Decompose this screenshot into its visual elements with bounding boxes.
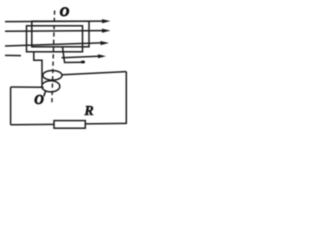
right lead end blob (81, 61, 85, 64)
field line B4 left segment (5, 54, 21, 56)
arrowhead B3 (101, 41, 110, 45)
wire: left vertical (10, 87, 12, 125)
field line B2 (5, 30, 103, 33)
wire: upper ring to right (63, 72, 127, 75)
svg-text:O: O (34, 92, 44, 107)
wire: bottom left (11, 123, 54, 125)
coil turn front rectangle (27, 26, 83, 52)
arrowhead B4 (98, 54, 106, 58)
resistor R box (54, 121, 85, 129)
wire: left brush to lower ring (11, 86, 44, 88)
prime mark of O' (44, 91, 46, 96)
coil turn rear rectangle (32, 21, 89, 47)
svg-text:R: R (83, 104, 93, 119)
slip ring upper (43, 71, 62, 81)
wire: right vertical (125, 72, 127, 124)
svg-text:O: O (60, 4, 70, 19)
coil left lead (34, 52, 42, 84)
field line B1 (5, 20, 103, 23)
field line B4 right segment (62, 56, 99, 57)
arrowhead B2 (102, 29, 111, 33)
slip ring lower (42, 81, 60, 92)
arrowhead B1 (102, 19, 111, 23)
wire: bottom right (85, 122, 127, 125)
coil right lead (63, 47, 83, 63)
axis O-O' dashed (52, 11, 55, 104)
field line B3 (5, 43, 101, 46)
